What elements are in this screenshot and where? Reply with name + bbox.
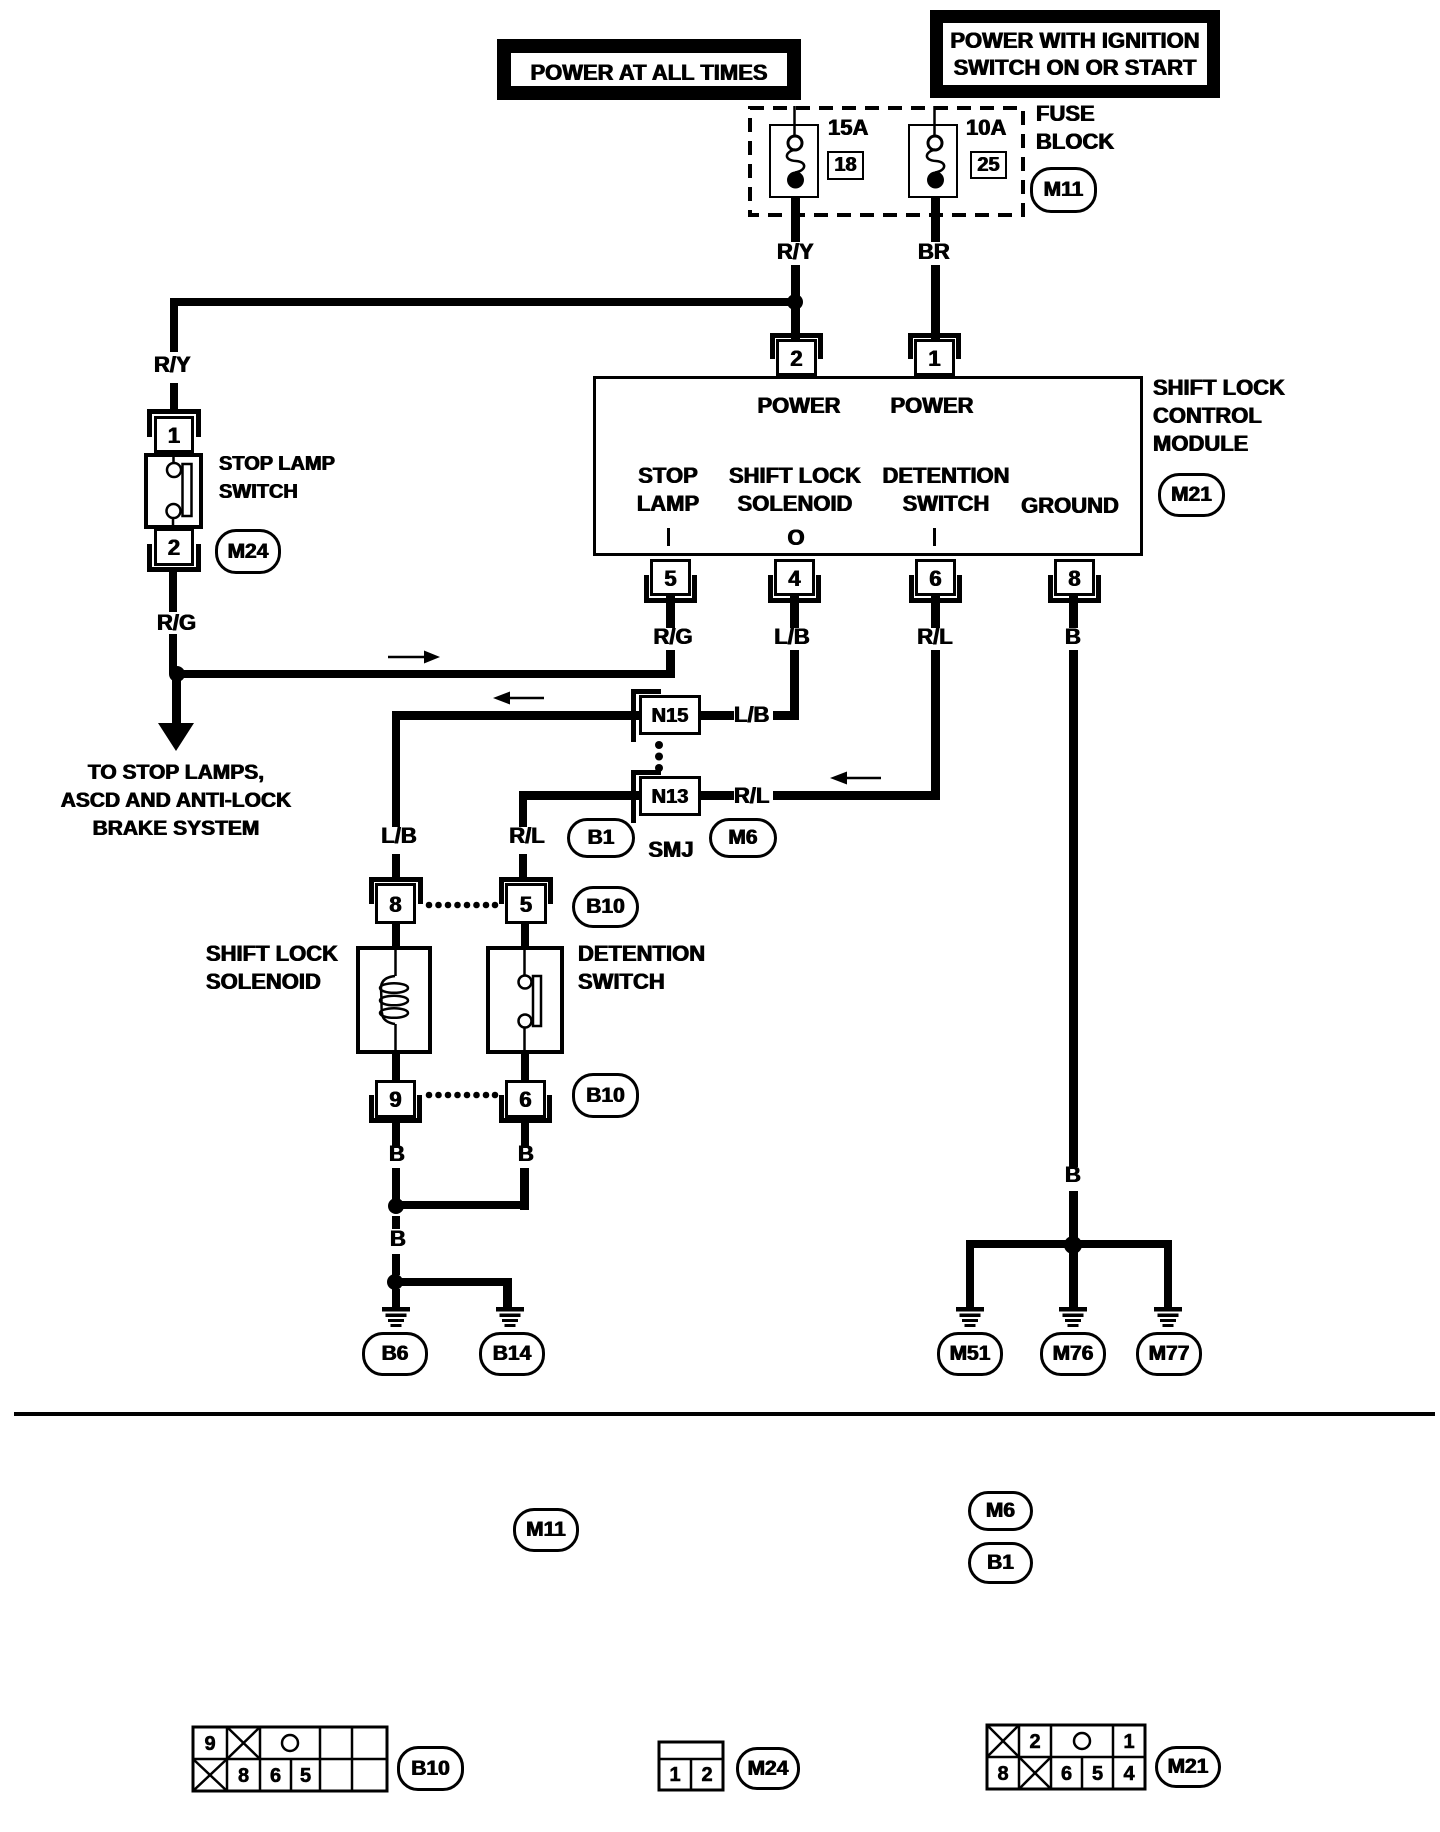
connector M77: [1136, 1332, 1202, 1376]
wire R/Y to stop lamp switch: [170, 383, 178, 410]
dotted link pins 9-6: [426, 1092, 499, 1099]
wire R/Y horizontal to left: [170, 298, 795, 306]
wire label BR: [918, 241, 950, 263]
connector table M24: [659, 1742, 723, 1790]
svg-text:2: 2: [1029, 1731, 1040, 1753]
wire B left to junction 1: [392, 1168, 400, 1200]
wire detention to pin 6: [521, 1054, 529, 1081]
svg-text:1: 1: [1123, 1731, 1134, 1753]
connector M24 label bottom: [736, 1747, 800, 1790]
wire pin5 down to R/G line: [666, 650, 675, 678]
connector M51: [937, 1332, 1003, 1376]
solenoid coil: [380, 950, 408, 1052]
wire pin5 to detention: [521, 923, 529, 947]
svg-text:5: 5: [1092, 1763, 1103, 1785]
junction node B 1: [388, 1198, 404, 1214]
wire pin8 down long: [1069, 650, 1078, 1167]
wire BR down to module pin 1: [931, 265, 940, 341]
fuse F18 element: [787, 106, 804, 189]
ground symbol B14: [496, 1307, 524, 1327]
wire down to B14 ground: [503, 1278, 512, 1308]
banner POWER AT ALL TIMES: [497, 39, 801, 100]
connector N15 bracket: [631, 689, 636, 742]
detention connector pin 5 bracket: [499, 877, 553, 882]
separator line: [14, 1412, 1435, 1416]
connector B6: [362, 1332, 428, 1376]
fuse F18 number 18: [827, 151, 864, 180]
arrow down to stop lamps: [158, 723, 194, 751]
wire L/B corner to pin4: [773, 711, 799, 720]
label STOP LAMP: [637, 462, 699, 518]
label DETENTION SWITCH: [578, 940, 705, 996]
wire L/B right of N15: [700, 711, 734, 720]
wire fuse F25 output BR: [931, 197, 940, 242]
wire R/Y down left side: [170, 298, 178, 352]
arrow left on R/L wire: [830, 772, 881, 785]
module pin 4: [774, 559, 815, 596]
wire pin8 to solenoid: [392, 923, 400, 947]
wire B resume to junction: [1069, 1191, 1078, 1240]
wire switch output R/G: [169, 571, 177, 612]
connector N13 bracket: [631, 770, 636, 823]
wire label R/Y: [777, 241, 814, 263]
wire R/G horizontal to module pin 5: [173, 670, 674, 678]
label SMJ: [648, 839, 693, 861]
fuse F25 body: [908, 124, 958, 198]
wire label R/G: [157, 612, 196, 634]
arrow left on L/B wire: [493, 692, 544, 705]
mark I pin5: [667, 528, 670, 546]
wire B dash below junction: [392, 1216, 400, 1229]
wire R/L drop left: [519, 791, 527, 827]
wire ground bus horizontal: [966, 1240, 1172, 1248]
connector N15: [639, 695, 701, 735]
connector M76: [1040, 1332, 1106, 1376]
detention switch body: [486, 946, 564, 1054]
connector table M21: [987, 1725, 1145, 1789]
wire B right down: [520, 1168, 529, 1210]
fuse F18 body: [769, 124, 819, 198]
dotted link N15 N13: [655, 741, 663, 772]
module pin 5: [650, 559, 691, 596]
connector B10 lower: [572, 1073, 639, 1118]
label DETENTION SWITCH: [882, 462, 1009, 518]
connector B10 upper: [572, 886, 639, 928]
fuse block dashed border: [750, 108, 1023, 215]
junction node ground: [1064, 1236, 1082, 1254]
wire fuse F18 output R/Y: [791, 197, 800, 242]
banner POWER WITH IGNITION SWITCH ON OR START: [930, 10, 1220, 98]
ground symbol M76: [1059, 1307, 1087, 1327]
svg-text:2: 2: [701, 1764, 712, 1786]
connector M11: [1030, 167, 1097, 213]
label TO STOP LAMPS ASCD AND ANTI-LOCK BRAKE SYSTEM: [61, 759, 292, 843]
wire to B6 ground: [392, 1289, 400, 1308]
solenoid connector pin 9: [375, 1080, 416, 1118]
ground symbol B6: [382, 1307, 410, 1327]
module pin 1: [914, 339, 955, 376]
stop lamp switch contacts: [167, 454, 192, 529]
connector M21: [1158, 473, 1225, 517]
shift lock solenoid body: [356, 946, 432, 1054]
svg-text:8: 8: [238, 1765, 249, 1787]
solenoid connector pin 8 bracket: [369, 877, 423, 882]
svg-text:9: 9: [204, 1733, 215, 1755]
fuse F18 value 15A: [828, 117, 868, 139]
connector B1: [567, 818, 635, 858]
svg-text:6: 6: [1061, 1763, 1072, 1785]
ground symbol M77: [1154, 1307, 1182, 1327]
module pin 6: [915, 559, 956, 596]
connector M6 bottom: [968, 1491, 1033, 1531]
mark I pin6: [933, 528, 936, 546]
wire R/Y junction to module pin 2: [791, 306, 800, 340]
label SHIFT LOCK SOLENOID: [729, 462, 861, 518]
connector B10 label bottom: [397, 1746, 464, 1791]
connector M21 label bottom: [1155, 1746, 1221, 1788]
connector table B10: [193, 1727, 387, 1791]
mark O pin4: [787, 527, 804, 549]
connector M6: [709, 818, 777, 858]
stop lamp switch pin 1: [154, 416, 194, 453]
wire label R/Y left: [154, 354, 191, 376]
module pin 8: [1054, 559, 1095, 596]
wire label L/B mid: [734, 704, 769, 726]
wire label B left: [389, 1143, 405, 1165]
svg-text:1: 1: [669, 1764, 680, 1786]
wire pin6 down: [931, 650, 940, 800]
wire label L/B pin4: [774, 626, 809, 648]
wire R/L horizontal left of N13: [519, 791, 640, 800]
label STOP LAMP SWITCH: [219, 450, 335, 506]
detention switch contacts: [519, 950, 542, 1052]
fuse F25 value 10A: [966, 117, 1006, 139]
detention connector pin 6: [505, 1080, 546, 1118]
wire label R/L mid: [734, 785, 769, 807]
connector M11 bottom: [513, 1508, 579, 1552]
wire R/G to junction: [169, 634, 177, 674]
wire pin6 down B: [521, 1122, 529, 1146]
wire R/G down to stop lamps: [172, 680, 181, 724]
wire B horizontal join: [396, 1201, 529, 1209]
ground symbol M51: [956, 1307, 984, 1327]
wire label R/L pin6: [917, 626, 952, 648]
junction node R/G: [169, 666, 185, 682]
wire pin4 stub: [790, 596, 799, 628]
arrow right on R/G wire: [388, 651, 440, 664]
detention connector pin 5: [505, 883, 547, 924]
wire to M76 ground: [1069, 1252, 1078, 1308]
svg-text:8: 8: [997, 1763, 1008, 1785]
wire R/L right of N13: [700, 791, 734, 800]
wire label B lower: [390, 1228, 406, 1250]
label POWER pin2: [757, 395, 840, 417]
wire L/B drop left: [392, 711, 400, 827]
wire R/Y to junction: [791, 265, 800, 302]
label GROUND: [1021, 495, 1119, 517]
wire pin9 down B: [392, 1122, 400, 1146]
wire L/B to solenoid pin 8: [392, 854, 400, 879]
stop lamp switch connector pin 1 bracket: [147, 409, 201, 414]
wire label R/G pin5: [653, 626, 692, 648]
junction node B 2: [387, 1274, 403, 1290]
fuse F25 element: [927, 106, 944, 189]
module pin 2 bracket: [770, 333, 823, 338]
wire R/L to detention pin 5: [519, 854, 527, 879]
label POWER pin1: [890, 395, 973, 417]
fuse F25 number 25: [970, 151, 1007, 179]
connector B1 bottom: [968, 1542, 1033, 1584]
module pin 2: [776, 339, 817, 376]
label SHIFT LOCK SOLENOID: [206, 940, 338, 996]
svg-text:4: 4: [1123, 1763, 1135, 1785]
wire L/B horizontal left of N15: [392, 711, 640, 720]
connector M24: [215, 529, 281, 574]
connector B14: [479, 1332, 545, 1376]
wire label B right: [518, 1143, 534, 1165]
wire pin5 stub: [666, 596, 675, 628]
stop lamp switch body M24: [144, 453, 203, 529]
junction node R/Y: [787, 294, 803, 310]
wire to M77 ground: [1164, 1240, 1172, 1308]
shift lock control module body: [593, 376, 1143, 556]
svg-text:6: 6: [270, 1765, 281, 1787]
wire B to junction 2: [392, 1254, 400, 1275]
wire pin6 stub: [931, 596, 940, 628]
stop lamp switch pin 2: [154, 528, 194, 566]
label FUSE BLOCK: [1036, 100, 1114, 156]
wire label R/L left: [509, 825, 544, 847]
wire to M51 ground: [966, 1240, 974, 1308]
wire solenoid to pin 9: [392, 1054, 400, 1081]
wire B2 horizontal to B14 ground: [395, 1278, 511, 1286]
connector N13: [639, 776, 701, 816]
stop lamp switch connector pin 2 bracket: [147, 567, 201, 572]
wire label B pin8: [1065, 626, 1081, 648]
label SHIFT LOCK CONTROL MODULE: [1153, 374, 1285, 458]
wire pin4 down: [790, 650, 799, 720]
module pin 1 bracket: [908, 333, 961, 338]
wire pin8 stub: [1069, 596, 1078, 628]
wire label L/B left: [381, 825, 416, 847]
wire label B ground: [1065, 1164, 1081, 1186]
solenoid connector pin 8: [375, 883, 416, 924]
svg-text:5: 5: [300, 1765, 311, 1787]
dotted link pins 8-5: [426, 902, 499, 909]
wire R/L corner to pin6: [773, 791, 940, 800]
